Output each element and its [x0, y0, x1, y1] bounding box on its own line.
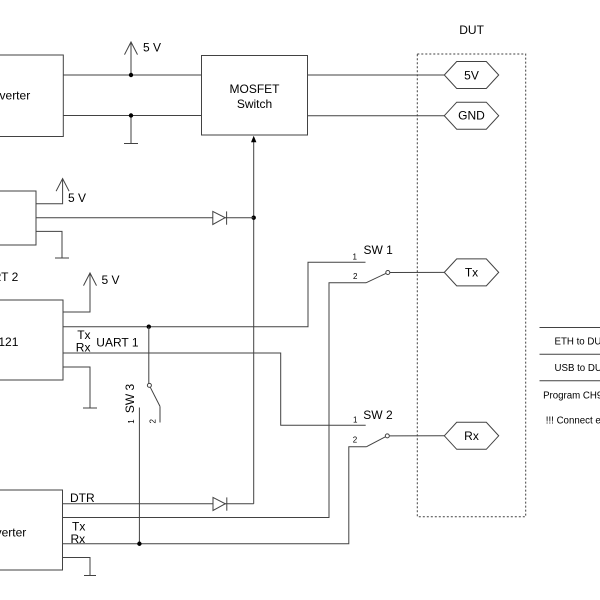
- svg-text:MOSFET: MOSFET: [230, 82, 281, 96]
- 5V supply arrow A2: [56, 179, 69, 192]
- svg-text:1: 1: [353, 415, 358, 424]
- svg-text:DTR: DTR: [70, 491, 95, 505]
- svg-text:SW 2: SW 2: [363, 408, 393, 422]
- junction node Rx net / SW3 pin1: [137, 542, 141, 546]
- SW3 pin 2 stub: [159, 406, 161, 422]
- wire U3 5V stub: [36, 179, 63, 204]
- svg-text:2: 2: [149, 419, 158, 424]
- MOSFET switch U2 box: [202, 56, 308, 136]
- svg-text:CH9121: CH9121: [0, 335, 19, 349]
- wire UART1 Tx down to SW3 pivot: [148, 327, 150, 384]
- junction node on 5V rail: [129, 73, 133, 77]
- notes table bottom border: [540, 380, 600, 382]
- diode D2: [213, 497, 227, 510]
- control wire into MOSFET (vertical net from diodes): [253, 141, 255, 504]
- junction node on GND rail: [129, 113, 133, 117]
- 5V supply arrow A1: [125, 42, 138, 75]
- SW1 pivot circle: [386, 271, 390, 275]
- arrowhead into MOSFET gate: [251, 136, 256, 143]
- wire U1 to MOSFET bottom (GND rail): [63, 115, 201, 117]
- SW2 pin2 wire from bottom converter Rx: [63, 447, 367, 544]
- UART1 Tx wire to SW1 pin1: [63, 262, 366, 327]
- svg-text:Switch: Switch: [237, 97, 272, 111]
- DUT dashed boundary box: [417, 54, 525, 517]
- svg-text:1: 1: [127, 419, 136, 424]
- wire U3 to diode D1: [36, 217, 254, 219]
- GND offpage connector hexagon: [444, 102, 498, 129]
- UART1 Rx wire to SW2 pin1: [63, 353, 366, 425]
- svg-text:USB-UART Converter: USB-UART Converter: [0, 526, 26, 540]
- svg-text:UART 1: UART 1: [96, 335, 139, 349]
- CH9121 box U4 (clipped at left): [0, 300, 63, 380]
- bottom converter U5 box (clipped at left): [0, 490, 63, 570]
- diode D1: [213, 211, 227, 224]
- svg-text:USB-UART Converter: USB-UART Converter: [0, 88, 30, 102]
- 5V offpage connector hexagon: [444, 62, 498, 89]
- wire MOSFET to 5V connector: [308, 74, 445, 76]
- ground symbol G3: [83, 407, 97, 409]
- wire MOSFET to GND connector: [308, 115, 445, 117]
- junction node UART1 Tx / SW3: [147, 325, 151, 329]
- notes table top border: [540, 327, 600, 329]
- wire U5 ground stub: [63, 558, 91, 576]
- svg-text:5 V: 5 V: [68, 191, 86, 205]
- SW3 pin 1 wire down to Rx net: [138, 408, 140, 544]
- ground symbol G2: [55, 257, 69, 259]
- svg-text:ETH to DUT: ETH to DUT: [555, 336, 600, 347]
- junction node diode D1 output: [252, 216, 256, 220]
- notes table mid border: [540, 353, 600, 355]
- 5V supply arrow A3: [84, 273, 97, 286]
- svg-text:5 V: 5 V: [143, 40, 161, 54]
- svg-text:Rx: Rx: [464, 429, 479, 443]
- svg-text:DUT: DUT: [459, 23, 484, 37]
- ground symbol G4: [84, 575, 96, 577]
- svg-text:Program CH9121: Program CH9121: [543, 390, 600, 401]
- SW2 pivot circle: [385, 434, 389, 438]
- svg-text:UART 2: UART 2: [0, 270, 19, 284]
- svg-text:!!! Connect ext: !!! Connect ext: [546, 416, 600, 427]
- SW1 pin2 wire from bottom converter Tx: [63, 283, 367, 518]
- svg-text:Rx: Rx: [71, 532, 86, 546]
- SW3 blade: [150, 387, 160, 406]
- wire SW1 to Tx connector: [390, 271, 445, 273]
- SW1 blade: [366, 273, 386, 282]
- wire U3 ground stub: [36, 231, 62, 257]
- MOSFET switch label: [230, 82, 281, 111]
- DTR wire to diode D2: [63, 503, 254, 505]
- svg-text:2: 2: [353, 436, 358, 445]
- svg-text:5V: 5V: [464, 68, 479, 82]
- wire U4 5V stub: [63, 273, 90, 312]
- box U3 (clipped at left): [0, 191, 36, 245]
- svg-text:Rx: Rx: [76, 340, 91, 354]
- svg-text:Tx: Tx: [465, 266, 478, 280]
- SW2 blade: [366, 437, 385, 447]
- svg-text:1: 1: [353, 253, 358, 262]
- Rx offpage connector hexagon: [444, 422, 498, 449]
- SW3 pivot circle: [147, 383, 151, 387]
- svg-text:USB to DUT: USB to DUT: [555, 363, 600, 374]
- wire U4 ground stub: [63, 367, 90, 408]
- converter U1 box (USB-UART converter, clipped at left): [0, 55, 63, 137]
- svg-text:GND: GND: [458, 108, 485, 122]
- svg-text:5 V: 5 V: [102, 273, 120, 287]
- wire SW2 to Rx connector: [389, 435, 444, 437]
- ground symbol G1: [124, 116, 138, 144]
- svg-text:SW 3: SW 3: [123, 384, 137, 414]
- svg-text:2: 2: [353, 272, 358, 281]
- svg-text:SW 1: SW 1: [364, 243, 394, 257]
- Tx offpage connector hexagon: [444, 259, 498, 286]
- wire U1 to MOSFET top (5V rail): [63, 74, 201, 76]
